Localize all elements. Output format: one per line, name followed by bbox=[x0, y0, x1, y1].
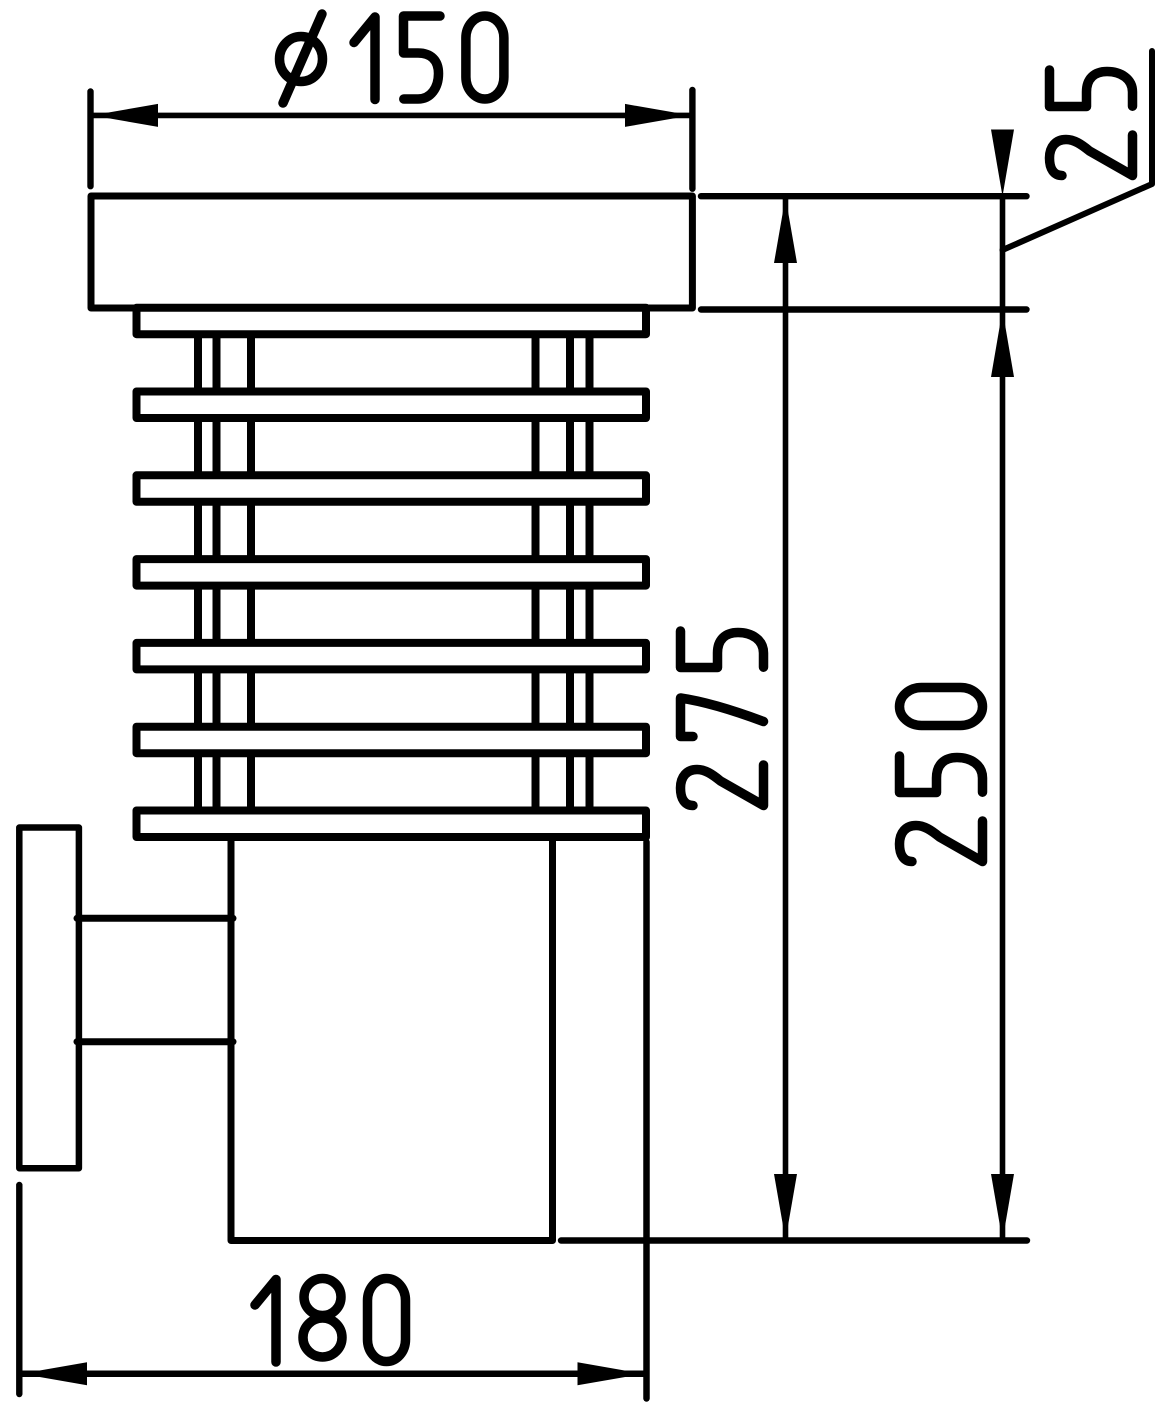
text dia150 digit 1 bbox=[354, 17, 375, 100]
extension line 180 left bbox=[16, 1185, 22, 1394]
extension line body bottom right bbox=[561, 1237, 1027, 1243]
cage rod right middle bbox=[566, 330, 574, 814]
leader line for 25 bbox=[1003, 51, 1153, 250]
arrow 275 top (up) bbox=[774, 197, 797, 263]
arrow 250 bottom (down) bbox=[991, 1174, 1014, 1241]
cage rod left outer bbox=[194, 330, 202, 814]
louvre slat 7 bbox=[137, 811, 647, 838]
extension line left of dia150 bbox=[87, 92, 93, 187]
text 180 digit 0 bbox=[368, 1279, 406, 1362]
arrow dia150 right bbox=[625, 104, 691, 127]
text 275 rotated bbox=[681, 631, 764, 806]
extension line cap top right bbox=[701, 193, 1027, 199]
text 250 rotated bbox=[900, 688, 983, 862]
louvre slat 4 bbox=[137, 559, 647, 586]
louvre slat 6 bbox=[137, 727, 647, 754]
arrow 180 left bbox=[21, 1362, 87, 1385]
cage rod right outer bbox=[586, 330, 594, 814]
louvre slat 5 bbox=[137, 643, 647, 670]
wall mount plate bbox=[19, 828, 79, 1169]
dimension line 275 bbox=[783, 196, 789, 1240]
text dia150 diameter symbol bbox=[280, 14, 323, 103]
top cap bbox=[91, 196, 692, 308]
arrow 275 bottom (down) bbox=[774, 1174, 797, 1240]
extension line cap bottom right bbox=[701, 306, 1027, 312]
text 180 digit 8 bbox=[303, 1279, 342, 1358]
extension line 180 right bbox=[643, 842, 650, 1399]
bracket arm bottom bbox=[77, 1038, 233, 1045]
bracket arm top bbox=[77, 915, 233, 922]
lamp body bbox=[231, 838, 553, 1241]
text dia150 digit 5 bbox=[404, 16, 441, 99]
cage rod right inner bbox=[532, 330, 540, 814]
text dia150 digit 0 bbox=[466, 16, 504, 99]
dimension line 250 and 25 bbox=[1000, 196, 1006, 1240]
arrow 25 bottom / 250 top (up) bbox=[991, 310, 1014, 377]
louvre slat 2 bbox=[137, 392, 647, 419]
arrow 180 right bbox=[578, 1362, 644, 1385]
arrow 25 top (down) bbox=[991, 130, 1014, 197]
cage rod left middle bbox=[213, 330, 221, 814]
arrow dia150 left bbox=[92, 104, 158, 127]
cage rod left inner bbox=[247, 330, 255, 814]
dimension line 180 bbox=[21, 1371, 644, 1378]
text 25 rotated bbox=[1050, 70, 1133, 176]
dimension line dia150 bbox=[92, 113, 691, 119]
text 180 digit 1 bbox=[255, 1280, 276, 1363]
louvre slat 3 bbox=[137, 475, 647, 502]
extension line right of dia150 bbox=[689, 90, 695, 189]
louvre slat 1 bbox=[137, 308, 647, 335]
